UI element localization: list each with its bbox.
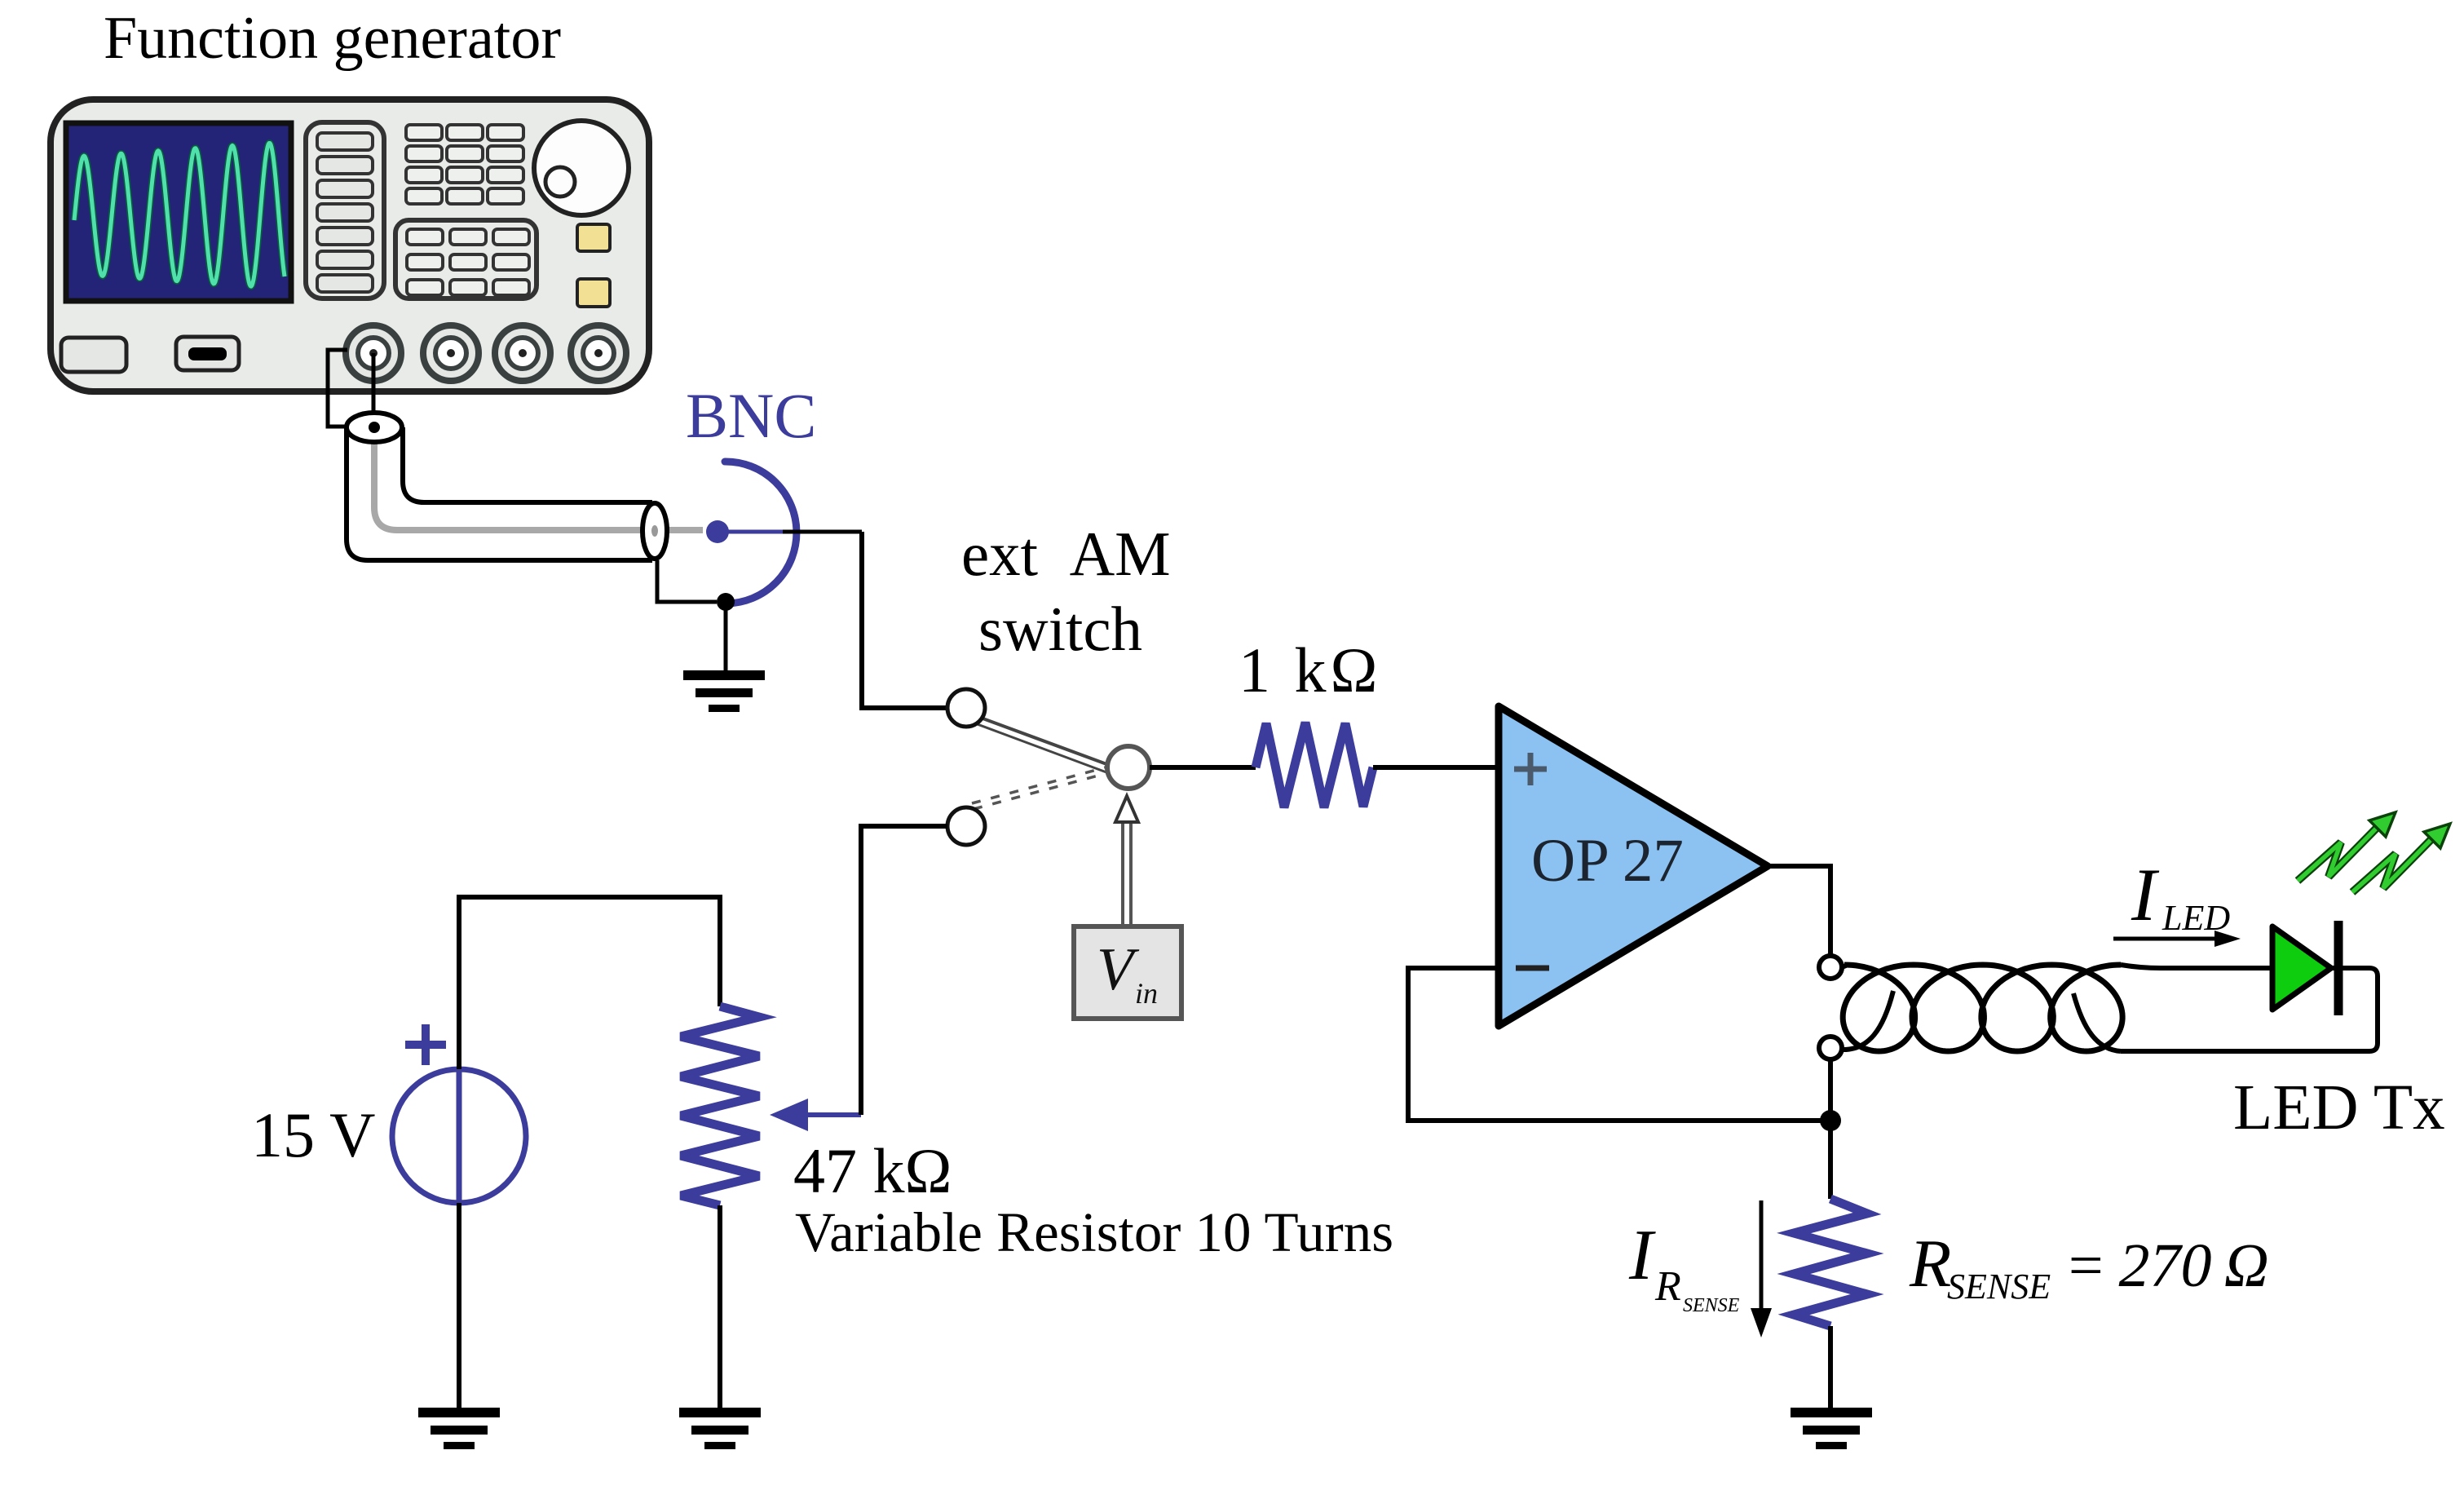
rotary knob — [534, 121, 629, 215]
wire R1 to op-amp — [1373, 765, 1497, 770]
svg-text:R: R — [1654, 1263, 1681, 1310]
yellow buttons — [577, 224, 610, 251]
svg-text:switch: switch — [978, 594, 1142, 664]
wire shield to ground — [724, 602, 728, 670]
function keypad — [395, 220, 537, 298]
sine wave trace — [74, 144, 285, 287]
pot wiper arrow — [803, 1112, 861, 1117]
ground (pot) — [679, 1408, 761, 1449]
twisted pair wire A — [1842, 966, 1846, 967]
svg-text:1 kΩ: 1 kΩ — [1239, 634, 1381, 705]
soft-key button column — [306, 122, 384, 298]
svg-text:ext AM: ext AM — [961, 519, 1171, 589]
svg-text:in: in — [1135, 977, 1158, 1010]
LED D1 — [2272, 926, 2331, 1010]
wire 15V top — [459, 897, 720, 1069]
light arrow 2 — [2352, 824, 2450, 892]
svg-text:I: I — [2131, 853, 2160, 936]
power buttons — [61, 338, 126, 372]
resistor R_SENSE — [1794, 1199, 1867, 1326]
wire wiper to switch — [861, 826, 947, 1115]
svg-text:V: V — [1097, 936, 1140, 1003]
wire lower terminal to junction — [1828, 1059, 1833, 1199]
wire plug bracket — [328, 350, 347, 427]
resistor 1k zigzag — [1256, 723, 1373, 807]
svg-text:OP 27: OP 27 — [1531, 827, 1684, 895]
svg-text:SENSE: SENSE — [1683, 1295, 1740, 1316]
coax center conductor — [374, 435, 703, 530]
LED loop wires — [2121, 965, 2378, 1051]
ground (R_SENSE) — [1791, 1408, 1872, 1449]
function generator body — [51, 99, 649, 391]
svg-text:SENSE: SENSE — [1947, 1267, 2051, 1307]
svg-text:BNC: BNC — [686, 380, 816, 451]
wire center pin — [372, 353, 376, 427]
node junction — [1820, 1110, 1841, 1131]
svg-text:47 kΩ: 47 kΩ — [793, 1135, 952, 1206]
svg-text:Variable Resistor 10 Turns: Variable Resistor 10 Turns — [795, 1201, 1393, 1263]
wire op-amp output — [1767, 866, 1830, 956]
switch arm solid — [978, 717, 1109, 765]
op-amp U1 — [1499, 706, 1768, 1026]
switch pole — [1107, 746, 1150, 789]
terminal circle lower — [1819, 1037, 1842, 1059]
numeric keypad — [406, 125, 442, 140]
svg-text:R: R — [1909, 1226, 1951, 1302]
switch arm dashed — [972, 767, 1106, 803]
ground (BNC shield) — [683, 670, 765, 712]
source 15V — [392, 1069, 526, 1203]
I_LED arrow — [2113, 937, 2221, 941]
svg-text:= 270 Ω: = 270 Ω — [2064, 1231, 2269, 1300]
BNC shield wire — [657, 560, 717, 602]
Vin arrow — [1121, 820, 1124, 926]
coax cable body — [347, 427, 652, 560]
svg-text:Function generator: Function generator — [104, 5, 561, 72]
display screen — [66, 123, 291, 301]
terminal circle upper — [1819, 956, 1842, 979]
coax top ellipse — [347, 413, 402, 442]
wire feedback — [1408, 968, 1830, 1121]
svg-text:LED Tx: LED Tx — [2233, 1072, 2445, 1143]
svg-text:15 V: 15 V — [251, 1099, 375, 1170]
resistor 47k pot — [681, 1006, 759, 1205]
svg-text:LED: LED — [2162, 898, 2230, 938]
svg-text:I: I — [1628, 1216, 1656, 1295]
I_RSENSE arrow — [1760, 1200, 1764, 1315]
BNC arc — [725, 462, 797, 604]
Vin box — [1074, 926, 1181, 1019]
wire pole to R1 — [1150, 765, 1256, 770]
wire pot bottom — [718, 1205, 722, 1408]
BNC center pin wire — [718, 530, 789, 534]
switch contact lower — [947, 807, 985, 845]
twisted pair wire B — [1842, 991, 1893, 1050]
wire 15V bottom — [457, 1203, 461, 1408]
ground (15V) — [418, 1408, 500, 1449]
coax end ellipse — [642, 503, 667, 559]
output connectors — [346, 325, 401, 381]
switch contact upper — [947, 689, 985, 727]
wire BNC to switch top contact — [862, 532, 947, 708]
light arrow 1 — [2298, 812, 2396, 881]
wire R_SENSE to ground — [1828, 1326, 1833, 1408]
